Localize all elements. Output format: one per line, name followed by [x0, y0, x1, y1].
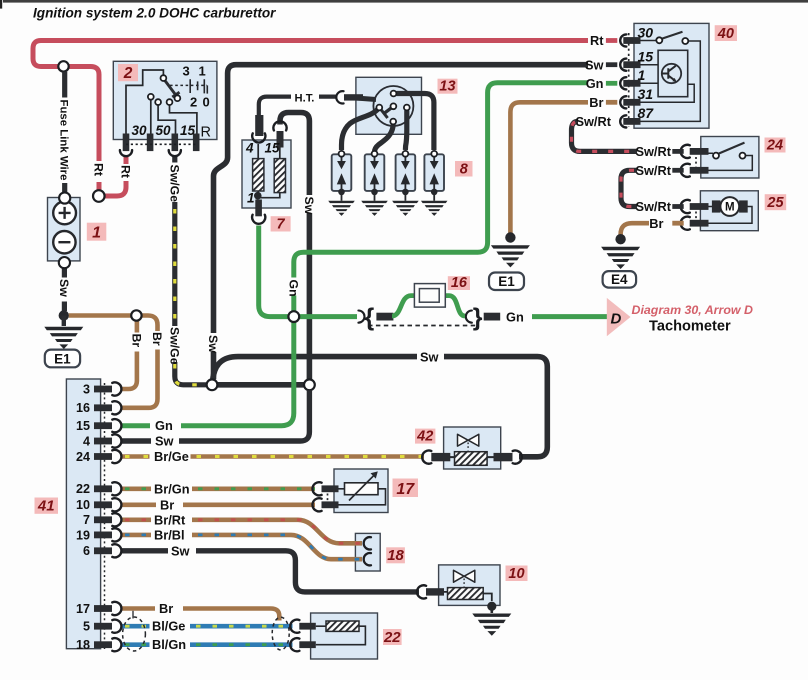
- control unit 40 body: [634, 23, 709, 128]
- coil terminal 4 arc: [252, 133, 265, 142]
- svg-text:E4: E4: [611, 272, 628, 287]
- heater 22 pins: [299, 623, 316, 630]
- label 2: [118, 64, 138, 82]
- svg-text:18: 18: [387, 547, 404, 564]
- module connector dotted line: [628, 33, 630, 127]
- svg-text:Sw: Sw: [155, 434, 174, 449]
- switch 2 internal wiring: [126, 70, 163, 134]
- svg-text:1: 1: [199, 64, 206, 79]
- svg-text:Fuse Link Wire: Fuse Link Wire: [57, 100, 69, 181]
- svg-text:Br: Br: [130, 334, 144, 348]
- svg-text:1: 1: [247, 191, 255, 206]
- motor 25 pins: [690, 203, 709, 210]
- battery connector circles: [59, 192, 70, 203]
- wire Sw ECU pin 6 to valve 10: [121, 551, 419, 592]
- suppressor 16 boxes: [414, 284, 445, 308]
- svg-text:Br: Br: [589, 95, 603, 110]
- svg-text:22: 22: [76, 482, 90, 496]
- sensor 17 arrow: [349, 476, 374, 501]
- switch 24 blade: [719, 143, 745, 154]
- svg-text:24: 24: [76, 450, 90, 464]
- valve 42 body: [444, 427, 501, 469]
- svg-text:15: 15: [180, 123, 196, 138]
- ground label E1 mid: [489, 273, 524, 291]
- module internal wiring: [641, 41, 701, 122]
- wire plug lead 4: [397, 94, 434, 151]
- suppressor 16 hump wire: [392, 296, 465, 316]
- spark plug 4: [424, 154, 444, 191]
- switch 2 pivot: [161, 75, 167, 81]
- distributor contacts: [391, 91, 397, 97]
- svg-text:Ignition system 2.0 DOHC carbu: Ignition system 2.0 DOHC carburettor: [33, 6, 276, 21]
- svg-text:Sw/Rt: Sw/Rt: [575, 114, 611, 129]
- wire Br/Ge ECU pin 24 to valve 42: [121, 454, 150, 459]
- label 22: [383, 629, 402, 646]
- label 25: [765, 194, 787, 211]
- label 7: [271, 216, 291, 232]
- battery 1 body: [48, 198, 81, 261]
- svg-text:0: 0: [203, 95, 210, 110]
- ground label E1 left: [45, 350, 80, 368]
- top border bar: [3, 0, 808, 3]
- coil winding secondary: [274, 159, 285, 193]
- sensor 17 body: [334, 469, 388, 513]
- node 1: [207, 379, 218, 390]
- valve 10 bowtie: [454, 570, 475, 582]
- svg-text:Rt: Rt: [92, 163, 106, 176]
- svg-text:87: 87: [638, 105, 655, 121]
- valve 10 pin: [426, 588, 444, 595]
- pin 87 of control unit 40: [623, 118, 640, 125]
- valve 42 pins: [431, 453, 450, 461]
- svg-text:5: 5: [83, 620, 90, 634]
- label 17: [393, 479, 419, 498]
- svg-text:Bl/Ge: Bl/Ge: [152, 619, 185, 634]
- svg-text:Br/Rt: Br/Rt: [154, 512, 186, 527]
- svg-text:Sw/Rt: Sw/Rt: [635, 199, 671, 214]
- svg-text:{: {: [365, 304, 375, 332]
- switch 2 blade: [165, 80, 175, 94]
- ECU connector 41 body: [66, 379, 100, 649]
- label 10: [506, 566, 528, 582]
- svg-text:Br: Br: [150, 332, 164, 346]
- wire Br control unit pin 31 to ground E1: [510, 102, 588, 233]
- svg-text:Gn: Gn: [155, 418, 173, 433]
- wire Br/Gn ECU pin 22 to sensor 17: [121, 486, 151, 491]
- pin 15 of control unit 40: [623, 61, 640, 68]
- svg-text:Sw/Ge: Sw/Ge: [168, 327, 182, 365]
- label 18: [386, 547, 405, 564]
- wire plug lead 3: [405, 111, 406, 151]
- spark plug 2: [365, 154, 385, 191]
- switch 24 wiring: [709, 153, 753, 170]
- svg-text:16: 16: [76, 401, 90, 415]
- junction dot battery ground: [59, 310, 69, 320]
- label 24: [765, 137, 786, 153]
- pin 5 of ECU connector 41: [94, 623, 112, 630]
- valve 42 bowtie: [458, 434, 479, 446]
- spark plug 3: [396, 154, 416, 191]
- screen ovals: [123, 617, 146, 651]
- svg-text:30: 30: [638, 24, 654, 40]
- switch 24 body: [701, 137, 759, 179]
- wire fuse link (black): [62, 72, 67, 193]
- wire Br/Rt ECU pin 7 to connector 18: [121, 517, 151, 522]
- node 2: [304, 379, 315, 390]
- svg-text:10: 10: [508, 566, 524, 582]
- svg-text:Gn: Gn: [586, 76, 604, 91]
- svg-text:6: 6: [83, 544, 90, 558]
- coil terminal 1 stub: [255, 200, 262, 217]
- svg-text:17: 17: [76, 602, 90, 616]
- svg-text:7: 7: [83, 513, 90, 527]
- pin 4 of ECU connector 41: [94, 438, 112, 445]
- svg-text:Br/Gn: Br/Gn: [154, 481, 190, 496]
- switch 2 position scale: [170, 84, 207, 86]
- arrow D: [607, 298, 631, 336]
- sensor 17 wiring: [339, 489, 386, 505]
- svg-text:Br/Bl: Br/Bl: [154, 527, 185, 542]
- svg-text:13: 13: [439, 79, 455, 95]
- wire Bl/Gn ECU pin 18 to heater 22: [121, 642, 150, 647]
- heater 22 wiring: [316, 626, 366, 645]
- svg-text:R: R: [201, 125, 211, 141]
- svg-text:1: 1: [92, 225, 101, 242]
- sensor 17 pins: [322, 485, 339, 492]
- label 16: [448, 275, 470, 291]
- suppressor 16 housing dashes: [368, 325, 478, 327]
- ECU connector dotted line: [104, 383, 106, 650]
- label 40: [715, 25, 737, 42]
- svg-text:3: 3: [83, 382, 90, 396]
- svg-text:3: 3: [183, 64, 190, 79]
- svg-text:E1: E1: [54, 351, 71, 366]
- svg-text:24: 24: [766, 137, 783, 153]
- pin 10 of ECU connector 41: [94, 501, 112, 508]
- motor 25 wiring: [709, 207, 753, 224]
- svg-text:Bl/Gn: Bl/Gn: [152, 637, 186, 652]
- wire Br/Bl ECU pin 19 to connector 18: [121, 533, 151, 538]
- svg-text:15: 15: [265, 141, 281, 156]
- pin 6 of ECU connector 41: [94, 547, 112, 554]
- switch 2 terminals: [123, 134, 130, 152]
- coil terminal 1 junction: [254, 192, 262, 200]
- ignition switch 2 body: [113, 61, 217, 139]
- transistor: [662, 64, 681, 83]
- wire distributor feed inside box: [349, 98, 376, 100]
- pin 18 of ECU connector 41: [94, 641, 112, 648]
- ground label E4: [603, 271, 637, 288]
- heater 22 body: [311, 613, 378, 659]
- svg-text:Gn: Gn: [506, 309, 524, 324]
- svg-text:22: 22: [383, 629, 401, 646]
- rotor arm: [384, 106, 393, 113]
- label 41: [35, 498, 59, 515]
- node A red junction: [58, 61, 68, 71]
- valve 10 ground: [487, 602, 496, 611]
- heater 22 element: [326, 621, 359, 631]
- screen link: [132, 611, 134, 619]
- wire Gn control unit pin 1 feed: [299, 314, 357, 319]
- coil terminal 15 stub: [277, 131, 284, 148]
- node B brown junction: [131, 310, 141, 320]
- node 3 green junction: [288, 311, 299, 322]
- pin 7 of ECU connector 41: [94, 516, 112, 523]
- junction dot E4: [615, 234, 625, 244]
- svg-text:Sw/Ge: Sw/Ge: [168, 165, 182, 203]
- distributor 13 body: [356, 77, 422, 134]
- svg-text:}: }: [473, 304, 483, 332]
- svg-text:M: M: [725, 202, 735, 214]
- wire Sw node1 up to valve 42 loop: [213, 357, 417, 380]
- wire Sw battery negative: [62, 268, 67, 311]
- wire Bl/Ge ECU pin 5 to heater 22: [121, 624, 150, 629]
- svg-text:7: 7: [277, 216, 286, 232]
- svg-text:10: 10: [76, 498, 90, 512]
- wire H.T. coil to distributor: [259, 97, 336, 119]
- wire Sw coil terminal 15 arch to node 2: [280, 113, 309, 380]
- wire Sw ECU pin 4 to node 2: [121, 390, 309, 441]
- svg-text:25: 25: [766, 195, 784, 211]
- wire Gn suppressor 16 to tachometer arrow: [532, 314, 607, 319]
- wire Br motor 25 to ground E4: [621, 223, 649, 235]
- ignition coil 7 body: [242, 140, 291, 208]
- pin 31 of control unit 40: [623, 99, 640, 106]
- spark plug 1: [332, 154, 352, 191]
- label 13: [438, 79, 458, 95]
- svg-text:50: 50: [156, 123, 172, 138]
- wire Br ECU pin 17 screen: [121, 609, 279, 621]
- svg-text:E1: E1: [498, 274, 515, 289]
- wire Rt battery feed (red top): [33, 41, 588, 162]
- svg-text:Br: Br: [159, 601, 173, 616]
- svg-text:17: 17: [396, 481, 415, 498]
- coil internal wires: [258, 144, 280, 198]
- svg-text:30: 30: [132, 123, 148, 138]
- svg-text:15: 15: [76, 419, 90, 433]
- svg-text:Sw: Sw: [57, 279, 71, 297]
- svg-text:8: 8: [460, 161, 469, 177]
- svg-text:40: 40: [717, 26, 734, 42]
- module inner box: [658, 50, 688, 96]
- connector circle Rt: [93, 190, 105, 202]
- svg-text:2: 2: [190, 95, 197, 110]
- svg-text:Br: Br: [160, 497, 174, 512]
- distributor cap circle: [373, 86, 413, 126]
- motor 25 body: [700, 191, 758, 231]
- svg-text:41: 41: [37, 498, 55, 515]
- module switch contacts: [656, 37, 662, 43]
- svg-text:Diagram 30, Arrow D: Diagram 30, Arrow D: [632, 303, 753, 317]
- svg-text:Sw: Sw: [171, 543, 190, 558]
- svg-text:42: 42: [416, 428, 433, 444]
- suppressor 16 stubs: [376, 313, 393, 321]
- wire Gn coil terminal 1 down: [259, 226, 289, 317]
- svg-text:Br/Ge: Br/Ge: [154, 449, 189, 464]
- svg-text:2: 2: [123, 65, 133, 82]
- svg-text:Rt: Rt: [119, 165, 133, 178]
- pin 15 of ECU connector 41: [94, 422, 112, 429]
- connector 18 body: [355, 533, 380, 571]
- motor brushes: [712, 200, 721, 212]
- svg-text:Sw: Sw: [585, 57, 604, 72]
- pin 1 of control unit 40: [623, 80, 640, 87]
- pin 22 of ECU connector 41: [94, 485, 112, 492]
- junction dot E1 mid: [505, 232, 515, 242]
- svg-text:4: 4: [245, 141, 254, 156]
- wire Sw node1-node2: [218, 382, 305, 388]
- wire Sw/Rt switch 24 to motor 25: [621, 170, 637, 206]
- wire plug lead 1: [342, 110, 378, 151]
- svg-text:Gn: Gn: [287, 280, 301, 297]
- svg-text:4: 4: [83, 434, 90, 448]
- wire Rt into terminal 30 of switch 2: [124, 156, 129, 165]
- svg-text:H.T.: H.T.: [295, 93, 315, 105]
- wire Br battery ground to ECU pins 3,16: [69, 313, 131, 318]
- wire Br ECU pin 10 to sensor 17: [121, 502, 315, 507]
- svg-text:Rt: Rt: [590, 33, 604, 48]
- svg-text:Sw: Sw: [420, 350, 439, 365]
- coil winding primary: [253, 159, 264, 191]
- wire Gn down to ECU pin 15: [121, 322, 294, 426]
- pin 19 of ECU connector 41: [94, 532, 112, 539]
- H.T. connector: [336, 91, 343, 103]
- wire plug lead 2: [375, 125, 394, 153]
- switch 24 contacts: [713, 153, 719, 159]
- svg-text:Tachometer: Tachometer: [649, 319, 731, 335]
- svg-text:Sw/Rt: Sw/Rt: [635, 163, 671, 178]
- svg-text:16: 16: [451, 275, 468, 291]
- svg-text:D: D: [611, 311, 622, 328]
- label 42: [415, 428, 435, 444]
- svg-text:15: 15: [638, 49, 654, 65]
- svg-text:Sw: Sw: [302, 197, 316, 215]
- connector 18 sockets: [364, 537, 371, 549]
- pin 30 of control unit 40: [623, 37, 640, 44]
- svg-text:Sw/Rt: Sw/Rt: [635, 144, 671, 159]
- svg-text:Sw: Sw: [206, 335, 220, 353]
- svg-text:1: 1: [638, 67, 646, 83]
- valve 10 body: [439, 565, 500, 606]
- motor M circle: [720, 197, 739, 216]
- switch 2 blade tip: [175, 95, 181, 101]
- svg-text:19: 19: [76, 528, 90, 542]
- svg-text:18: 18: [76, 638, 90, 652]
- pin 17 of ECU connector 41: [94, 605, 112, 612]
- battery minus terminal: [53, 231, 75, 253]
- pin 24 of ECU connector 41: [94, 453, 112, 460]
- pin 3 of ECU connector 41: [94, 386, 112, 393]
- switch 2 contacts: [151, 100, 197, 135]
- switch 24 pins: [690, 148, 709, 155]
- battery plus terminal: [53, 202, 76, 225]
- svg-text:31: 31: [638, 86, 654, 102]
- module switch blade: [662, 32, 683, 39]
- ground E1 left: [62, 316, 66, 327]
- valve 10 wiring: [444, 592, 492, 601]
- label 8: [455, 161, 473, 177]
- label 1: [87, 223, 107, 242]
- wire Sw/Ge switch terminal 15 to node 1: [172, 156, 177, 163]
- valve 10 solenoid: [448, 588, 484, 600]
- sensor 17 resistor: [345, 483, 379, 495]
- wire Sw/Rt pin 87 to switch 24: [572, 121, 638, 151]
- valve 42 solenoid: [455, 452, 488, 466]
- pin 16 of ECU connector 41: [94, 404, 112, 411]
- svg-text:Br: Br: [649, 216, 663, 231]
- wire Sw column to control unit pin 15: [214, 65, 237, 380]
